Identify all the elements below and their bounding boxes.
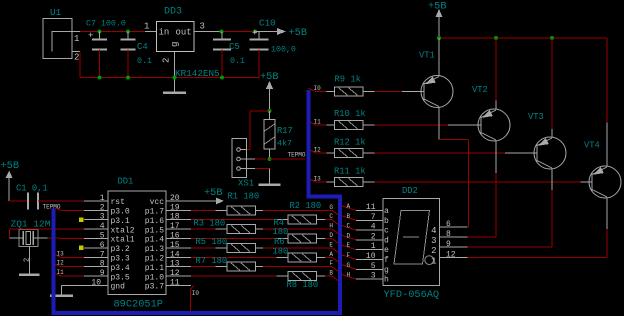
wire C7 to gnd rail	[99, 50, 101, 78]
svg-text:p3.0: p3.0	[111, 208, 130, 217]
svg-text:I0: I0	[192, 290, 200, 297]
bus net harness	[54, 90, 340, 313]
resistor R6 180	[191, 253, 332, 262]
connector U1	[43, 7, 80, 63]
junction gnd rail C7	[98, 76, 102, 80]
wire C10 to gnd rail	[258, 50, 260, 78]
seven segment digit	[394, 210, 434, 264]
svg-text:2: 2	[371, 232, 376, 241]
svg-text:4: 4	[371, 223, 376, 232]
node I3 bus entry	[309, 176, 321, 183]
net TERMO to DD1.2	[43, 203, 85, 210]
svg-text:180: 180	[273, 227, 289, 237]
svg-text:p1.3: p1.3	[145, 245, 164, 254]
svg-text:100,0: 100,0	[271, 46, 296, 55]
resistor R7 180	[191, 262, 332, 271]
node F bus entry right	[342, 252, 356, 260]
svg-text:p1.5: p1.5	[145, 226, 164, 235]
svg-text:VT1: VT1	[419, 51, 435, 61]
node D bus entry left	[329, 232, 338, 243]
svg-text:p1.2: p1.2	[145, 255, 164, 264]
svg-text:4: 4	[100, 222, 105, 231]
svg-text:7: 7	[371, 213, 376, 222]
svg-text:b: b	[384, 217, 389, 226]
svg-text:+5B: +5B	[260, 71, 279, 83]
svg-text:5: 5	[100, 232, 105, 241]
svg-text:7: 7	[100, 250, 105, 259]
svg-text:1: 1	[431, 257, 436, 267]
svg-text:6: 6	[100, 241, 105, 250]
wire VT4 collector to DD2.12	[468, 198, 608, 258]
svg-text:180: 180	[273, 247, 289, 257]
unconnected pin marker p3.2	[80, 246, 84, 250]
svg-text:C5: C5	[229, 42, 240, 52]
wire VT1 collector to DD2.6	[439, 107, 469, 227]
DD2 pin 3 segment h	[356, 272, 389, 285]
svg-text:C10: C10	[259, 18, 276, 29]
label R4	[273, 218, 289, 237]
node G bus entry right	[342, 262, 356, 270]
svg-text:C7 100.0: C7 100.0	[86, 20, 126, 29]
svg-text:R7 180: R7 180	[196, 256, 228, 266]
svg-text:C: C	[347, 223, 351, 230]
junction R17 bottom	[268, 157, 272, 161]
node B bus entry right	[342, 213, 356, 221]
svg-text:89C2051P: 89C2051P	[114, 299, 163, 311]
junction C10	[253, 30, 257, 34]
svg-text:rst: rst	[111, 198, 125, 207]
svg-text:H: H	[329, 223, 333, 230]
svg-text:3: 3	[100, 213, 105, 222]
svg-text:20: 20	[170, 194, 180, 203]
power +5B mid	[260, 71, 279, 111]
svg-text:vcc: vcc	[150, 198, 165, 207]
svg-text:p3.7: p3.7	[145, 283, 164, 292]
svg-text:p3.2: p3.2	[111, 245, 130, 254]
svg-text:19: 19	[170, 203, 180, 212]
svg-text:1: 1	[100, 194, 105, 203]
power +5B top-left	[255, 27, 307, 39]
svg-text:4: 4	[431, 226, 436, 236]
svg-text:R8 180: R8 180	[287, 280, 319, 290]
svg-text:+: +	[252, 29, 257, 39]
wire XS1.2 to R17 bottom	[247, 158, 267, 160]
microcontroller DD1 89C2051P	[91, 177, 179, 311]
wire VT4 emitter	[606, 123, 608, 167]
node H bus entry right	[342, 272, 356, 280]
svg-text:R6: R6	[274, 237, 285, 247]
resistor R4 180	[191, 234, 332, 243]
svg-text:I3: I3	[314, 176, 322, 183]
node I1 bus entry	[309, 119, 321, 126]
svg-text:DD3: DD3	[164, 7, 182, 18]
svg-text:VT4: VT4	[584, 141, 600, 151]
power +5B transistor rail	[428, 1, 447, 39]
svg-text:F: F	[347, 252, 351, 259]
svg-text:2: 2	[74, 53, 79, 63]
resistor R12	[316, 138, 375, 158]
wire R11 to VT4 base	[375, 181, 593, 183]
junction C4	[126, 30, 130, 34]
junction R17 top	[268, 109, 272, 113]
svg-text:p1.0: p1.0	[145, 273, 164, 282]
DD2 pin 1 segment e	[356, 242, 389, 255]
wire DD3.out to +5B	[194, 31, 255, 33]
svg-text:DD1: DD1	[118, 177, 134, 187]
ground ZQ1	[28, 247, 30, 275]
wire TERMO net to bus	[270, 152, 306, 160]
DD2 pin 11 segment a	[356, 203, 389, 216]
wire DD3 gnd pin	[174, 52, 176, 93]
junction gnd rail C5	[220, 76, 224, 80]
DD2 pin 2 segment d	[356, 232, 389, 245]
svg-text:3: 3	[371, 272, 376, 281]
svg-text:U1: U1	[50, 7, 62, 18]
svg-text:ТЕРМО: ТЕРМО	[288, 152, 306, 159]
resistor R8 180	[191, 272, 332, 281]
svg-text:18: 18	[170, 213, 180, 222]
svg-text:A: A	[329, 251, 333, 258]
net I3 to DD1.7	[55, 250, 84, 257]
svg-text:2: 2	[431, 246, 436, 256]
DD2 common pin 12	[431, 251, 467, 267]
svg-text:A: A	[347, 203, 351, 210]
svg-text:5: 5	[371, 262, 376, 271]
capacitor C5	[213, 32, 245, 67]
svg-text:out: out	[176, 28, 192, 38]
power +5B DD1	[1, 160, 20, 201]
wire gnd rail	[80, 52, 259, 78]
svg-text:xtal1: xtal1	[111, 236, 135, 245]
svg-text:D: D	[347, 232, 351, 239]
transistor VT3	[528, 112, 566, 169]
wire U1.1 to DD3.in	[80, 31, 157, 33]
junction VT3 emitter	[550, 36, 554, 40]
resistor R1 180	[191, 206, 332, 215]
wire R10 to VT2 base	[375, 124, 482, 126]
svg-text:R3 180: R3 180	[194, 219, 226, 229]
svg-text:C4: C4	[137, 42, 148, 52]
svg-text:f: f	[384, 256, 389, 265]
node E bus entry right	[342, 242, 356, 250]
junction gnd rail C4	[126, 76, 130, 80]
transistor VT4	[584, 141, 621, 199]
svg-text:c: c	[384, 227, 389, 236]
transistor VT2	[472, 85, 510, 141]
svg-text:g: g	[170, 42, 180, 47]
svg-text:2: 2	[162, 58, 172, 63]
svg-text:VT2: VT2	[472, 85, 488, 95]
svg-text:11: 11	[366, 203, 376, 212]
node F bus entry left	[329, 260, 338, 271]
svg-text:I1: I1	[314, 119, 322, 126]
svg-text:p3.4: p3.4	[111, 264, 130, 273]
svg-text:p1.7: p1.7	[145, 208, 164, 217]
DD2 common pin 6	[431, 220, 467, 236]
unconnected pin marker p3.1	[80, 218, 84, 222]
svg-text:C1 0,1: C1 0,1	[16, 184, 48, 194]
svg-text:gnd: gnd	[111, 283, 126, 292]
svg-text:8: 8	[446, 230, 451, 239]
svg-text:B: B	[329, 270, 333, 277]
wire R17 top to XS1.1	[247, 111, 270, 150]
label R6	[273, 237, 289, 257]
svg-text:10: 10	[366, 252, 376, 261]
DD2 common pin 9	[431, 240, 467, 256]
node A bus entry right	[342, 203, 356, 211]
svg-text:+5B: +5B	[289, 27, 308, 39]
resistor R10	[316, 109, 375, 130]
node A bus entry left	[329, 251, 338, 262]
junction DD3 gnd	[173, 76, 177, 80]
svg-text:15: 15	[170, 241, 180, 250]
svg-text:e: e	[384, 246, 389, 255]
svg-text:17: 17	[170, 222, 180, 231]
svg-text:8: 8	[100, 260, 105, 269]
node G bus entry left	[329, 204, 338, 215]
connector XS1	[232, 139, 254, 189]
svg-text:a: a	[384, 207, 389, 216]
svg-text:VT3: VT3	[528, 112, 544, 122]
transistor VT1	[419, 51, 453, 108]
resistor R11	[316, 167, 375, 187]
svg-text:p1.6: p1.6	[145, 217, 164, 226]
svg-text:d: d	[384, 236, 389, 245]
capacitor C4	[121, 32, 152, 67]
svg-text:YFD-056AQ: YFD-056AQ	[384, 289, 440, 301]
svg-text:R1 180: R1 180	[228, 192, 260, 202]
DD2 common pin 8	[431, 230, 467, 246]
svg-text:+: +	[88, 31, 93, 41]
junction VT1 emitter	[437, 36, 441, 40]
svg-text:p1.4: p1.4	[145, 236, 164, 245]
svg-text:XS1: XS1	[238, 179, 254, 189]
svg-text:16: 16	[170, 232, 180, 241]
svg-text:p3.1: p3.1	[111, 217, 130, 226]
svg-text:DD2: DD2	[402, 186, 418, 196]
svg-text:12: 12	[170, 269, 180, 278]
svg-text:G: G	[329, 204, 333, 211]
resistor R2 180	[191, 215, 332, 224]
DD2 pin 7 segment b	[356, 213, 389, 226]
wire VT3 collector to DD2.9	[468, 169, 553, 248]
wire C1 to DD1.1 rst	[38, 200, 84, 202]
wire VT2 emitter	[495, 38, 497, 110]
svg-text:g: g	[384, 266, 389, 275]
svg-text:R11 1k: R11 1k	[334, 167, 366, 177]
node I2 bus entry	[309, 147, 321, 154]
wire rail to VT4 emitter	[606, 38, 608, 123]
svg-text:R9 1k: R9 1k	[335, 75, 361, 85]
DD2 pin 4 segment c	[356, 223, 389, 236]
svg-text:10: 10	[91, 279, 101, 288]
wire VT1 emitter	[438, 38, 440, 76]
wire VT2 collector to DD2.8	[468, 141, 497, 237]
node D bus entry right	[342, 232, 356, 240]
svg-text:in: in	[159, 28, 170, 38]
svg-text:6: 6	[446, 220, 451, 229]
display DD2 YFD-056AQ	[383, 186, 440, 301]
svg-text:xtal2: xtal2	[111, 226, 135, 235]
svg-text:1: 1	[74, 34, 79, 44]
wire DD1.4 xtal2 to ZQ1	[10, 229, 85, 238]
capacitor C1	[9, 184, 47, 210]
DD1 left pin lines	[84, 201, 108, 276]
svg-text:+5B: +5B	[428, 1, 447, 13]
DD2 pin 5 segment g	[356, 262, 389, 275]
svg-text:0.1: 0.1	[137, 57, 152, 66]
svg-text:H: H	[347, 272, 351, 279]
power +5B vcc arrow	[189, 187, 224, 204]
ground DD1 gnd pin	[50, 286, 108, 296]
svg-text:13: 13	[170, 260, 180, 269]
wire C5 to gnd rail	[221, 50, 223, 78]
svg-text:I0: I0	[314, 85, 322, 92]
capacitor C10	[250, 18, 296, 55]
svg-text:p1.1: p1.1	[145, 264, 164, 273]
svg-text:3: 3	[200, 22, 205, 32]
crystal ZQ1	[11, 219, 51, 263]
net I2 to DD1.8	[55, 260, 84, 267]
svg-text:9: 9	[446, 240, 451, 249]
svg-text:14: 14	[170, 250, 180, 259]
svg-text:12: 12	[446, 251, 456, 260]
resistor R9	[316, 75, 375, 97]
wire R12 to VT3 base	[375, 152, 538, 154]
resistor R5 180	[191, 243, 332, 252]
wire +5B rail	[439, 37, 607, 39]
svg-text:p3.3: p3.3	[111, 255, 130, 264]
svg-text:9: 9	[100, 269, 105, 278]
wire XS1.3 to ground	[247, 168, 270, 170]
DD2 pin 10 segment f	[356, 252, 389, 265]
node I0 bus entry	[308, 85, 321, 92]
svg-text:C: C	[329, 213, 333, 220]
svg-text:2: 2	[24, 258, 32, 262]
ground DD3	[163, 91, 186, 94]
svg-text:1: 1	[144, 22, 149, 32]
node B bus entry left	[329, 270, 338, 281]
svg-text:R10 1k: R10 1k	[334, 109, 366, 119]
svg-text:+5B: +5B	[204, 187, 223, 199]
svg-text:D: D	[329, 232, 333, 239]
junction gnd rail DD3	[173, 76, 177, 80]
svg-text:R12 1k: R12 1k	[334, 138, 366, 148]
wire C4 to gnd rail	[127, 50, 129, 78]
svg-text:E: E	[347, 242, 351, 249]
svg-text:3: 3	[431, 236, 436, 246]
svg-text:11: 11	[170, 279, 180, 288]
svg-text:2: 2	[100, 203, 105, 212]
capacitor C7	[86, 20, 126, 50]
svg-text:G: G	[347, 262, 351, 269]
svg-text:1: 1	[371, 242, 376, 251]
svg-text:R17: R17	[277, 126, 293, 136]
svg-text:h: h	[384, 276, 389, 285]
svg-text:p3.5: p3.5	[111, 273, 130, 282]
wire R9 to VT1 base	[375, 91, 425, 93]
node C bus entry right	[342, 223, 356, 231]
junction VT2 emitter	[494, 36, 498, 40]
svg-text:E: E	[329, 241, 333, 248]
svg-text:4k7: 4k7	[277, 139, 292, 149]
svg-text:+5B: +5B	[1, 160, 20, 172]
svg-text:ZQ1 12M: ZQ1 12M	[11, 219, 51, 230]
svg-text:0.1: 0.1	[230, 57, 245, 66]
wire VT3 emitter	[551, 38, 553, 138]
net I1 to DD1.9	[55, 269, 84, 276]
junction C5	[220, 30, 224, 34]
resistor R17	[264, 111, 293, 159]
node C bus entry left	[329, 213, 338, 224]
voltage regulator DD3 KR142EN5	[144, 7, 220, 80]
svg-text:F: F	[329, 260, 333, 267]
svg-text:R5 180: R5 180	[196, 237, 228, 247]
svg-text:I2: I2	[314, 147, 322, 154]
svg-text:R2 180: R2 180	[290, 201, 322, 211]
net I0 to DD1.11	[191, 286, 200, 313]
svg-text:B: B	[347, 213, 351, 220]
wire DD1.5 xtal1 to ZQ1	[33, 237, 84, 240]
node H bus entry left	[329, 223, 338, 234]
node E bus entry left	[329, 241, 338, 252]
DD1 right pin lines	[166, 201, 191, 286]
junction C7	[98, 30, 102, 34]
resistor R3 180	[191, 225, 332, 234]
ground XS1	[269, 169, 271, 185]
